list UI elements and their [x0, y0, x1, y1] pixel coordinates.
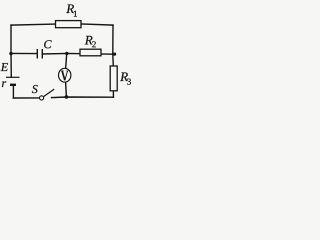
voltmeter V letter	[61, 71, 68, 80]
wire left vertical (battery branch, lower)	[12, 85, 14, 98]
battery E long plate	[6, 76, 20, 78]
wire right vertical upper	[112, 25, 115, 66]
label R3	[120, 72, 131, 84]
label R1	[66, 4, 77, 16]
label r	[2, 81, 6, 87]
node junction left (middle rail to battery branch)	[9, 52, 12, 55]
switch S lever	[44, 89, 55, 96]
label S	[32, 85, 38, 93]
node junction right (middle rail to R3 branch)	[113, 53, 116, 56]
label R2	[85, 36, 96, 47]
wire voltmeter bottom branch	[65, 82, 68, 98]
wire top rail	[11, 24, 113, 25]
switch S pivot circle	[40, 96, 44, 100]
wire bottom rail left of switch	[13, 97, 39, 99]
wire bottom rail right of switch	[52, 96, 114, 99]
resistor R2	[80, 49, 101, 56]
battery E short thick plate	[10, 84, 16, 86]
label E	[1, 63, 8, 71]
capacitor C plates	[37, 49, 42, 59]
wire right vertical lower	[112, 91, 114, 97]
label C	[44, 40, 51, 48]
node junction voltmeter bottom	[65, 95, 69, 99]
resistor R1	[56, 21, 82, 28]
node junction voltmeter top	[65, 52, 68, 55]
resistor R3	[110, 66, 117, 91]
wire left vertical (battery branch, upper)	[10, 25, 12, 77]
wire middle rail	[11, 52, 37, 54]
voltmeter V circle	[58, 68, 70, 82]
wire voltmeter top branch	[66, 54, 67, 69]
wire middle rail right of capacitor	[43, 52, 114, 55]
